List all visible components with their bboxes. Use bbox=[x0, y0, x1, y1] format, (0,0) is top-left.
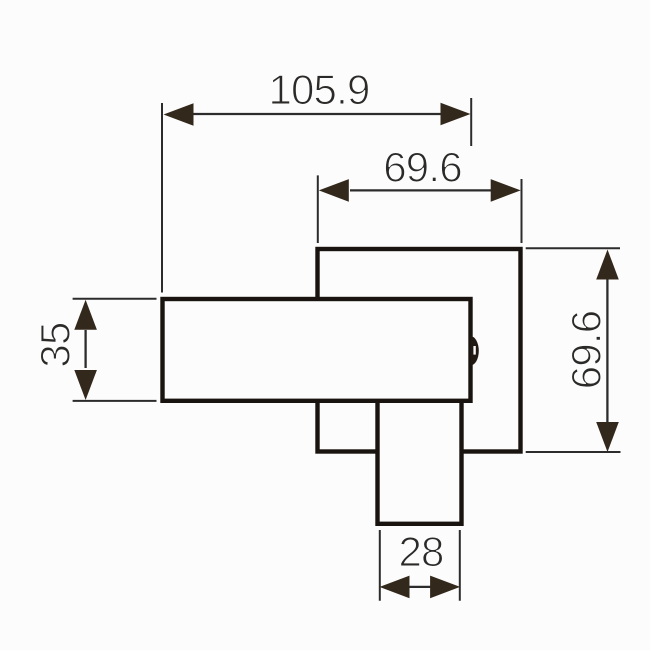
dim 28 extension line right bbox=[459, 530, 461, 601]
svg-text:28: 28 bbox=[398, 528, 443, 575]
dim 69.6 top extension line left bbox=[317, 175, 319, 243]
valve body square 69.6x69.6 bbox=[318, 249, 521, 452]
dim 105.9 arrow left bbox=[164, 103, 194, 126]
dim 69.6 right arrow top bbox=[596, 250, 619, 280]
dim 28 line bbox=[407, 586, 433, 588]
svg-text:69.6: 69.6 bbox=[383, 144, 462, 191]
svg-text:105.9: 105.9 bbox=[268, 66, 369, 113]
dim 105.9 extension line right bbox=[470, 98, 472, 146]
dim 69.6 right line bbox=[606, 279, 608, 423]
svg-text:69.6: 69.6 bbox=[563, 311, 610, 390]
dim 105.9 extension line left bbox=[161, 103, 163, 293]
lever pivot half-ellipse bbox=[471, 336, 479, 365]
dim 69.6 right extension line top bbox=[526, 247, 620, 249]
lever handle 105.9x35 bbox=[163, 299, 471, 401]
dim 69.6 top line bbox=[350, 189, 491, 191]
pivot slot bbox=[473, 346, 475, 355]
dim 69.6 top arrow right bbox=[491, 179, 521, 202]
dim 28 extension line left bbox=[379, 530, 381, 601]
dim 105.9 arrow right bbox=[441, 103, 471, 126]
dim 28 arrow right bbox=[430, 576, 460, 599]
dim 105.9 line bbox=[192, 113, 443, 115]
dim 35 line bbox=[84, 330, 86, 368]
dim 35 extension line top bbox=[73, 298, 157, 300]
spout 28 wide bbox=[378, 401, 462, 524]
svg-text:35: 35 bbox=[32, 322, 79, 367]
dim 69.6 right arrow bottom bbox=[596, 422, 619, 452]
dim 69.6 top extension line right bbox=[521, 179, 523, 243]
dim 69.6 right extension line bottom bbox=[526, 451, 621, 453]
dim 35 arrow top bbox=[74, 300, 97, 330]
dim 35 arrow bottom bbox=[74, 370, 97, 400]
dim 69.6 top arrow left bbox=[319, 179, 349, 202]
dim 35 extension line bottom bbox=[73, 400, 157, 402]
dim 28 arrow left bbox=[380, 576, 410, 599]
